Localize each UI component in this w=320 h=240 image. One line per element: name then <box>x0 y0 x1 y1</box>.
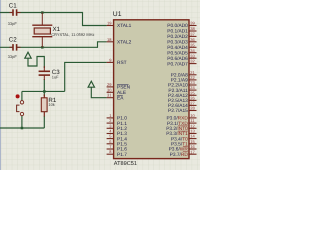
svg-text:17: 17 <box>190 149 195 154</box>
wire: ground net bottom <box>0 127 44 129</box>
power terminal VCC (reset circuit) <box>25 52 31 58</box>
left pin names <box>117 23 132 158</box>
svg-text:P2.0/A8: P2.0/A8 <box>171 73 188 79</box>
svg-text:19: 19 <box>107 21 112 26</box>
svg-text:31: 31 <box>107 93 112 98</box>
svg-text:29: 29 <box>107 82 112 87</box>
svg-text:P3.0/RXD: P3.0/RXD <box>166 116 188 122</box>
wire: button bottom to ground net <box>21 116 23 128</box>
svg-text:P2.6/A14: P2.6/A14 <box>168 103 188 109</box>
wire: VCC2 to EA pin 31 <box>91 87 106 98</box>
wire: node to R1 top <box>43 91 45 96</box>
svg-text:P1.6: P1.6 <box>117 147 127 153</box>
svg-text:P2.2/A10: P2.2/A10 <box>168 83 188 89</box>
right pin names P2 <box>168 73 188 115</box>
svg-text:P1.7: P1.7 <box>117 152 127 158</box>
push button (reset) <box>16 94 24 115</box>
junction node at crystal bottom <box>41 46 44 49</box>
svg-text:32: 32 <box>190 59 195 64</box>
left pin numbers <box>107 21 112 155</box>
svg-text:XTAL2: XTAL2 <box>117 40 132 46</box>
junction node ground/button <box>21 127 24 130</box>
svg-text:P1.1: P1.1 <box>117 121 127 127</box>
svg-text:33pF: 33pF <box>8 21 18 26</box>
svg-text:PSEN: PSEN <box>117 85 131 91</box>
svg-text:33pF: 33pF <box>8 54 18 59</box>
svg-text:35: 35 <box>190 42 195 47</box>
svg-text:P1.2: P1.2 <box>117 126 127 132</box>
svg-text:P1.0: P1.0 <box>117 116 127 122</box>
svg-text:CRYSTAL, 11.0592 MHz: CRYSTAL, 11.0592 MHz <box>51 32 94 37</box>
svg-text:U1: U1 <box>113 11 122 18</box>
svg-text:P3.4/T0: P3.4/T0 <box>171 136 188 142</box>
svg-text:36: 36 <box>190 37 195 42</box>
svg-text:P0.6/AD6: P0.6/AD6 <box>167 56 188 62</box>
right pin names P3 <box>166 116 188 158</box>
svg-text:33: 33 <box>190 53 195 58</box>
capacitor C3 <box>39 66 61 80</box>
svg-text:C2: C2 <box>9 37 17 44</box>
svg-text:P2.4/A12: P2.4/A12 <box>168 93 188 99</box>
svg-text:18: 18 <box>107 37 112 42</box>
svg-text:XTAL1: XTAL1 <box>117 23 132 29</box>
svg-text:P0.5/AD5: P0.5/AD5 <box>167 50 188 56</box>
wire: XTAL1 net from C1 to pin 19 <box>0 13 107 26</box>
resistor R1 <box>41 95 57 117</box>
svg-text:39: 39 <box>190 21 195 26</box>
svg-text:EA: EA <box>117 95 124 101</box>
svg-text:P2.3/A11: P2.3/A11 <box>168 88 188 94</box>
right pin numbers <box>190 21 195 155</box>
svg-text:37: 37 <box>190 32 195 37</box>
svg-text:P2.1/A9: P2.1/A9 <box>171 78 188 84</box>
wire: R1 bottom to ground net <box>43 116 45 128</box>
right pin stubs <box>189 26 197 155</box>
svg-text:P0.7/AD7: P0.7/AD7 <box>167 61 188 67</box>
wire: XTAL2 net from C2 to pin 18 <box>0 42 107 48</box>
left pin stubs <box>107 26 114 155</box>
crystal X1 <box>32 13 94 48</box>
right pin names P0 <box>167 23 188 67</box>
svg-text:P1.3: P1.3 <box>117 131 127 137</box>
svg-text:P0.3/AD3: P0.3/AD3 <box>167 40 188 46</box>
junction node at crystal top <box>41 11 44 14</box>
svg-text:P0.4/AD4: P0.4/AD4 <box>167 45 188 51</box>
svg-text:C1: C1 <box>9 3 17 10</box>
wire: button top from reset node <box>21 91 23 100</box>
svg-text:34: 34 <box>190 48 195 53</box>
svg-text:P3.7/RD: P3.7/RD <box>170 152 189 158</box>
svg-text:28: 28 <box>190 106 195 111</box>
svg-text:38: 38 <box>190 26 195 31</box>
capacitor C2 <box>8 37 21 60</box>
power terminal VCC (EA) <box>88 81 94 87</box>
wire: VCC to C3 zigzag <box>28 57 44 69</box>
svg-text:10k: 10k <box>48 102 54 107</box>
svg-text:1uF: 1uF <box>52 75 59 80</box>
wire: RST riser to pin 9 <box>65 62 107 91</box>
svg-text:30: 30 <box>107 87 112 92</box>
svg-text:P1.4: P1.4 <box>117 136 127 142</box>
wire: reset node horizontal <box>22 90 65 92</box>
wire: C3 bottom to reset node <box>43 79 45 91</box>
svg-text:AT89C51: AT89C51 <box>114 161 137 167</box>
sheet border <box>0 0 1 170</box>
svg-text:P2.7/A15: P2.7/A15 <box>168 108 188 114</box>
capacitor C1 <box>8 3 21 26</box>
svg-text:P1.5: P1.5 <box>117 142 127 148</box>
svg-text:P0.2/AD2: P0.2/AD2 <box>167 34 188 40</box>
junction node reset <box>43 90 46 93</box>
IC U1 AT89C51 body <box>114 20 189 159</box>
svg-text:P0.1/AD1: P0.1/AD1 <box>167 29 188 35</box>
svg-text:P0.0/AD0: P0.0/AD0 <box>167 23 188 29</box>
svg-text:P3.3/INT1: P3.3/INT1 <box>166 131 188 137</box>
svg-text:RST: RST <box>117 60 127 66</box>
